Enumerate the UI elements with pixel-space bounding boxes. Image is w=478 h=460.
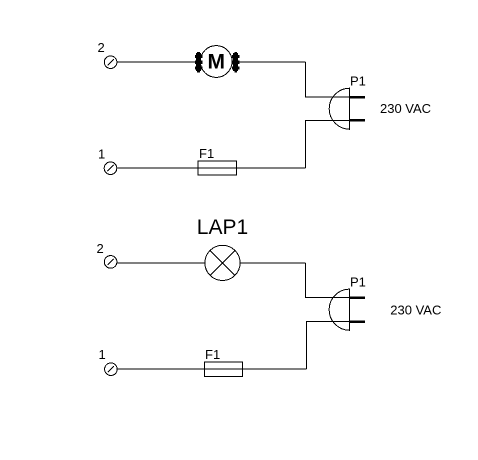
- svg-text:P1: P1: [350, 74, 366, 89]
- wire plug bottom to corner: [306, 120, 350, 168]
- svg-text:2: 2: [97, 241, 104, 256]
- lamp LAP1 circle: [205, 245, 240, 280]
- plug P1 (bottom) body arc: [329, 289, 350, 330]
- svg-text:1: 1: [99, 347, 106, 362]
- wire fuse line (top circuit): [117, 167, 305, 169]
- lamp LAP1 cross: [210, 251, 235, 276]
- plug P1 (top) flat side: [349, 88, 351, 130]
- plug P1 (bottom) flat side: [349, 289, 351, 331]
- terminal X2 (top circuit): [104, 56, 117, 69]
- wire fuse line (bottom circuit): [117, 368, 307, 370]
- fuse F1 (bottom) body: [204, 362, 242, 377]
- plug P1 (top) body arc: [329, 88, 350, 129]
- wire motor to corner: [239, 61, 306, 63]
- svg-text:2: 2: [98, 40, 105, 55]
- terminal X2 (bottom circuit): [104, 256, 117, 269]
- wire plug bottom to corner (bottom circuit): [307, 322, 350, 370]
- plug P1 (bottom) bottom prong: [350, 320, 365, 323]
- svg-text:LAP1: LAP1: [197, 216, 248, 239]
- wire corner down to plug top (bottom circuit): [305, 263, 349, 298]
- wire lamp to corner: [240, 262, 305, 264]
- svg-text:F1: F1: [205, 347, 220, 362]
- svg-text:1: 1: [98, 147, 105, 162]
- svg-text:F1: F1: [199, 146, 214, 161]
- motor right brush: [232, 52, 239, 72]
- svg-text:M: M: [207, 50, 225, 73]
- wire corner down to plug top: [306, 62, 350, 97]
- terminal X1 (top circuit): [104, 162, 117, 175]
- wire terminal2 to motor: [117, 61, 195, 63]
- fuse F1 (top) body: [198, 161, 237, 175]
- svg-text:230 VAC: 230 VAC: [380, 101, 431, 116]
- wire terminal2 to lamp: [117, 262, 205, 264]
- motor M1 circle: [200, 46, 232, 78]
- svg-text:230 VAC: 230 VAC: [390, 302, 441, 317]
- terminal X1 (bottom circuit): [105, 363, 118, 376]
- motor left brush: [195, 52, 202, 72]
- plug P1 (top) bottom prong: [350, 119, 365, 122]
- plug P1 (bottom) top prong: [350, 296, 365, 299]
- plug P1 (top) top prong: [350, 96, 365, 99]
- svg-text:P1: P1: [350, 275, 366, 290]
